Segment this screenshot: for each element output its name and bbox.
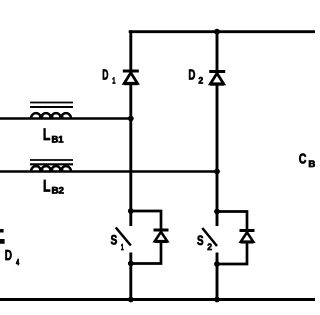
node S2 branch top [214, 209, 220, 215]
svg-text:S: S [111, 232, 118, 247]
node left vertical at bottom rail [128, 297, 134, 303]
label D2 [188, 67, 203, 85]
diode of S1 branch [154, 230, 169, 242]
svg-text:L: L [43, 126, 51, 144]
svg-text:C: C [299, 151, 307, 167]
node right vertical at bottom rail [214, 297, 220, 303]
wire LB2 branch (left edge to right vertical) [0, 170, 217, 173]
wire LB1 branch (left edge to left vertical) [0, 117, 131, 120]
label LB2 [43, 178, 64, 196]
svg-text:2: 2 [198, 75, 203, 85]
wire right vertical lower (S2 lower contact to bottom rail) [216, 253, 219, 301]
switch S2 blade [202, 228, 217, 246]
wire right vertical middle (D2 anode to S2 upper contact) [216, 84, 219, 226]
label CB [299, 151, 316, 169]
svg-text:D: D [5, 248, 12, 264]
svg-text:B: B [308, 159, 315, 169]
node S1 branch bottom [128, 261, 134, 267]
label D4 [5, 248, 20, 267]
wire left vertical middle (D1 anode to S1 upper contact) [129, 84, 132, 227]
label LB1 [43, 126, 64, 144]
wire bottom rail [0, 298, 315, 301]
node LB1 to left vertical [128, 116, 134, 122]
diode D2 [209, 72, 225, 85]
node S1 branch top [128, 208, 134, 214]
wire S2 antiparallel branch [217, 212, 247, 265]
node S2 branch bottom [214, 261, 220, 267]
svg-text:D: D [188, 67, 195, 83]
wire left vertical upper (top rail to D1 cathode) [129, 30, 132, 71]
svg-text:1: 1 [112, 75, 115, 85]
svg-text:B2: B2 [52, 186, 65, 196]
wire left vertical lower (S1 lower contact to bottom rail) [129, 253, 132, 301]
svg-text:4: 4 [16, 257, 19, 267]
inductor LB2 [30, 160, 73, 172]
svg-text:S: S [197, 233, 204, 248]
wire right vertical upper (top rail to D2 cathode) [216, 30, 219, 71]
diode D4 partial symbol at left edge [0, 229, 5, 244]
diode of S2 branch [240, 231, 255, 243]
switch S1 blade [116, 228, 131, 246]
svg-text:2: 2 [207, 242, 212, 252]
node LB2 to right vertical [214, 169, 220, 175]
wire S1 antiparallel branch [131, 211, 161, 264]
node on top rail at right vertical [214, 29, 220, 35]
svg-text:1: 1 [121, 242, 124, 252]
svg-text:L: L [43, 178, 51, 196]
svg-text:B1: B1 [52, 134, 64, 144]
label S1 [111, 232, 124, 252]
label D1 [102, 67, 115, 85]
inductor LB1 [30, 103, 73, 119]
wire top rail [129, 30, 315, 33]
diode D1 [123, 71, 139, 84]
svg-text:D: D [102, 67, 108, 83]
label S2 [197, 233, 212, 252]
